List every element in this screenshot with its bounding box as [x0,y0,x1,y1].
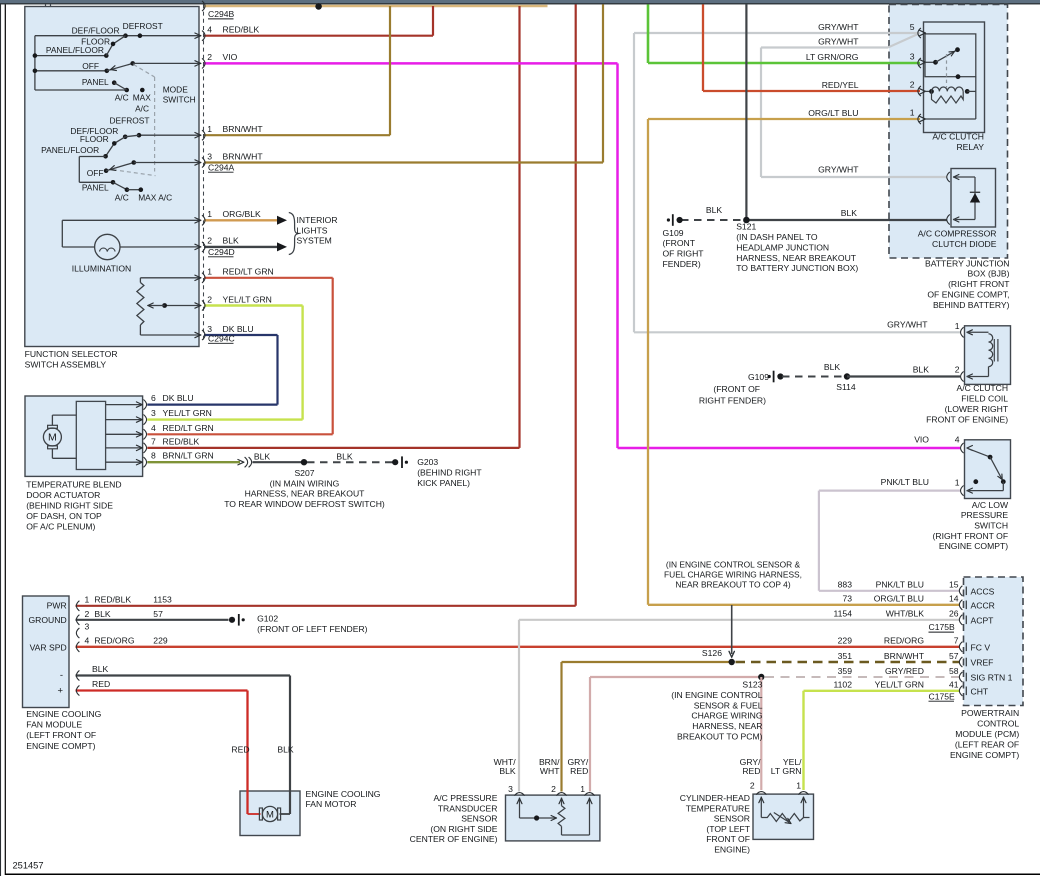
svg-text:ORG/LT BLU: ORG/LT BLU [874,594,924,604]
svg-text:229: 229 [838,636,853,646]
svg-text:58: 58 [949,666,959,676]
svg-text:BLK: BLK [824,362,841,372]
svg-text:RED: RED [742,766,760,776]
svg-text:1: 1 [207,209,212,219]
svg-text:1102: 1102 [834,680,853,690]
svg-text:SIG RTN 1: SIG RTN 1 [971,673,1013,683]
svg-text:GROUND: GROUND [28,615,66,625]
svg-text:A/C: A/C [115,192,129,202]
svg-text:BOX (BJB): BOX (BJB) [967,269,1009,279]
svg-text:SENSOR & FUEL: SENSOR & FUEL [694,700,763,710]
svg-text:DEFROST: DEFROST [123,21,163,31]
svg-text:883: 883 [838,580,853,590]
svg-text:ENGINE COOLING: ENGINE COOLING [26,709,101,719]
svg-text:(LEFT REAR OF: (LEFT REAR OF [955,739,1019,749]
svg-text:BLK: BLK [336,451,353,461]
svg-text:PNK/LT BLU: PNK/LT BLU [881,477,929,487]
svg-text:RED/ORG: RED/ORG [94,636,134,646]
svg-text:ILLUMINATION: ILLUMINATION [72,263,132,273]
svg-text:SWITCH: SWITCH [974,521,1008,531]
svg-text:VREF: VREF [971,658,994,668]
svg-text:MODULE (PCM): MODULE (PCM) [955,729,1019,739]
svg-text:1154: 1154 [834,609,853,619]
svg-text:3: 3 [207,324,212,334]
svg-text:YEL/LT GRN: YEL/LT GRN [163,408,212,418]
svg-text:S126: S126 [702,648,722,658]
svg-text:(ON RIGHT SIDE: (ON RIGHT SIDE [430,824,497,834]
svg-text:RELAY: RELAY [956,142,984,152]
svg-text:DK BLU: DK BLU [223,324,254,334]
svg-text:1: 1 [955,321,960,331]
svg-text:FUNCTION SELECTOR: FUNCTION SELECTOR [25,349,118,359]
svg-text:CONTROL: CONTROL [977,719,1019,729]
svg-text:(IN ENGINE CONTROL SENSOR &: (IN ENGINE CONTROL SENSOR & [666,559,801,569]
svg-text:CHARGE WIRING: CHARGE WIRING [691,711,762,721]
svg-text:(FRONT: (FRONT [663,238,696,248]
svg-text:RED/LT GRN: RED/LT GRN [223,267,274,277]
svg-text:(FRONT OF LEFT FENDER): (FRONT OF LEFT FENDER) [257,624,368,634]
svg-text:TO BATTERY JUNCTION BOX): TO BATTERY JUNCTION BOX) [736,263,858,273]
svg-text:BLK: BLK [254,451,271,461]
svg-text:(LOWER RIGHT: (LOWER RIGHT [945,404,1009,414]
svg-text:SWITCH: SWITCH [163,95,196,105]
svg-text:7: 7 [151,436,156,446]
svg-text:YEL/LT GRN: YEL/LT GRN [875,680,924,690]
svg-text:OF A/C PLENUM): OF A/C PLENUM) [26,522,95,532]
svg-text:HEADLAMP JUNCTION: HEADLAMP JUNCTION [736,242,829,252]
svg-text:TRANSDUCER: TRANSDUCER [438,803,498,813]
svg-text:FRONT OF ENGINE): FRONT OF ENGINE) [926,414,1008,424]
svg-text:NEAR BREAKOUT TO COP 4): NEAR BREAKOUT TO COP 4) [675,580,790,590]
svg-text:FAN MOTOR: FAN MOTOR [306,799,357,809]
svg-text:3: 3 [207,151,212,161]
svg-text:POWERTRAIN: POWERTRAIN [961,708,1019,718]
svg-text:PNK/LT BLU: PNK/LT BLU [876,580,924,590]
svg-text:G109: G109 [748,372,769,382]
svg-text:2: 2 [750,780,755,790]
svg-text:M: M [266,810,274,821]
svg-text:TEMPERATURE BLEND: TEMPERATURE BLEND [26,479,121,489]
svg-text:C294D: C294D [208,247,235,257]
svg-text:1: 1 [796,780,801,790]
svg-text:G102: G102 [257,613,278,623]
svg-text:2: 2 [551,784,556,794]
svg-text:WHT/BLK: WHT/BLK [886,609,924,619]
svg-text:DK BLU: DK BLU [163,393,194,403]
svg-text:BREAKOUT TO PCM): BREAKOUT TO PCM) [677,732,763,742]
svg-text:26: 26 [949,609,959,619]
svg-text:OFF: OFF [82,61,99,71]
svg-text:M: M [48,432,57,444]
svg-text:(BEHIND RIGHT SIDE: (BEHIND RIGHT SIDE [26,501,113,511]
svg-text:FRONT OF: FRONT OF [706,834,750,844]
svg-text:1: 1 [910,107,915,117]
svg-text:41: 41 [949,680,959,690]
svg-text:(TOP LEFT: (TOP LEFT [706,824,750,834]
svg-text:1: 1 [207,267,212,277]
svg-text:S121: S121 [736,222,756,232]
svg-text:FC V: FC V [971,642,991,652]
svg-text:C294B: C294B [208,9,235,19]
svg-text:57: 57 [153,609,163,619]
svg-text:BLK: BLK [92,664,109,674]
svg-text:G203: G203 [417,457,438,467]
svg-text:3: 3 [85,622,90,632]
svg-text:2: 2 [955,365,960,375]
svg-text:3: 3 [910,51,915,61]
svg-text:RED/YEL: RED/YEL [822,80,859,90]
svg-text:C294A: C294A [208,162,235,172]
svg-text:RED/LT GRN: RED/LT GRN [163,423,214,433]
svg-text:(RIGHT FRONT: (RIGHT FRONT [948,279,1010,289]
svg-text:4: 4 [85,636,90,646]
svg-text:BLK: BLK [94,609,111,619]
svg-text:4: 4 [207,25,212,35]
svg-text:FENDER): FENDER) [663,259,701,269]
svg-text:PANEL: PANEL [82,77,109,87]
svg-text:ENGINE COMPT): ENGINE COMPT) [950,750,1019,760]
svg-text:A/C PRESSURE: A/C PRESSURE [434,793,498,803]
svg-text:C175E: C175E [929,691,956,701]
svg-text:14: 14 [949,594,959,604]
svg-text:DEF/FLOOR: DEF/FLOOR [72,26,120,36]
svg-text:CHT: CHT [971,686,989,696]
svg-text:2: 2 [910,79,915,89]
svg-text:GRY/RED: GRY/RED [885,666,924,676]
svg-text:BLK: BLK [706,205,723,215]
svg-text:1: 1 [580,784,585,794]
svg-text:OF ENGINE COMPT,: OF ENGINE COMPT, [927,290,1009,300]
svg-text:GRY/WHT: GRY/WHT [818,165,859,175]
svg-text:BLK: BLK [913,365,930,375]
svg-text:1: 1 [207,124,212,134]
svg-text:73: 73 [842,594,852,604]
svg-text:7: 7 [954,636,959,646]
svg-text:SENSOR: SENSOR [714,814,750,824]
svg-text:ENGINE COOLING: ENGINE COOLING [306,789,381,799]
svg-text:(BEHIND RIGHT: (BEHIND RIGHT [417,467,482,477]
svg-text:INTERIOR: INTERIOR [297,215,338,225]
svg-text:+: + [57,685,63,696]
svg-text:OF RIGHT: OF RIGHT [663,249,705,259]
svg-text:BLK: BLK [223,236,240,246]
svg-text:FIELD COIL: FIELD COIL [961,394,1008,404]
svg-text:KICK PANEL): KICK PANEL) [417,478,470,488]
svg-text:GRY/WHT: GRY/WHT [887,319,928,329]
svg-text:RED/BLK: RED/BLK [94,594,131,604]
svg-text:C294C: C294C [208,333,235,343]
svg-text:MAX: MAX [133,93,152,103]
svg-text:2: 2 [207,294,212,304]
svg-text:ORG/LT BLU: ORG/LT BLU [808,108,858,118]
svg-text:359: 359 [838,666,853,676]
svg-text:HARNESS, NEAR BREAKOUT: HARNESS, NEAR BREAKOUT [245,489,366,499]
svg-text:2: 2 [207,236,212,246]
svg-text:RED: RED [92,679,110,689]
svg-text:A/C: A/C [135,104,149,114]
svg-text:ENGINE): ENGINE) [714,845,750,855]
svg-text:4: 4 [955,435,960,445]
svg-text:BATTERY JUNCTION: BATTERY JUNCTION [925,258,1010,268]
svg-text:2: 2 [85,609,90,619]
svg-text:VIO: VIO [223,52,238,62]
svg-text:LT GRN/ORG: LT GRN/ORG [806,52,859,62]
svg-text:BRN/WHT: BRN/WHT [223,151,264,161]
svg-text:BRN/WHT: BRN/WHT [223,124,264,134]
svg-text:3: 3 [508,784,513,794]
svg-text:A/C: A/C [115,93,129,103]
svg-text:MODE: MODE [163,84,189,94]
svg-text:A/C LOW: A/C LOW [972,500,1009,510]
svg-text:ORG/BLK: ORG/BLK [223,209,261,219]
svg-text:ENGINE COMPT): ENGINE COMPT) [26,741,95,751]
svg-text:OF DASH, ON TOP: OF DASH, ON TOP [26,511,102,521]
svg-text:DEFROST: DEFROST [109,116,149,126]
svg-text:GRY/WHT: GRY/WHT [818,37,859,47]
svg-text:SWITCH ASSEMBLY: SWITCH ASSEMBLY [25,360,107,370]
svg-text:BEHIND BATTERY): BEHIND BATTERY) [933,300,1010,310]
svg-text:RED: RED [231,745,249,755]
svg-text:ENGINE COMPT): ENGINE COMPT) [939,541,1008,551]
svg-text:RED/BLK: RED/BLK [223,25,260,35]
svg-text:PRESSURE: PRESSURE [961,510,1009,520]
svg-text:CENTER OF ENGINE): CENTER OF ENGINE) [410,834,498,844]
svg-text:TO REAR WINDOW DEFROST SWITCH): TO REAR WINDOW DEFROST SWITCH) [224,499,385,509]
svg-text:PANEL/FLOOR: PANEL/FLOOR [46,45,104,55]
svg-text:-: - [60,670,63,681]
svg-text:S123: S123 [742,680,762,690]
svg-text:OFF: OFF [87,168,104,178]
svg-text:RIGHT FENDER): RIGHT FENDER) [699,396,766,406]
svg-text:LT GRN: LT GRN [771,766,802,776]
svg-text:(IN ENGINE CONTROL: (IN ENGINE CONTROL [671,690,762,700]
svg-text:BRN/LT GRN: BRN/LT GRN [163,451,214,461]
svg-text:1153: 1153 [153,594,172,604]
svg-text:RED/ORG: RED/ORG [884,636,924,646]
svg-text:SENSOR: SENSOR [461,814,497,824]
svg-text:(LEFT FRONT OF: (LEFT FRONT OF [26,730,96,740]
svg-text:G109: G109 [663,228,684,238]
svg-text:RED: RED [570,766,588,776]
svg-text:A/C CLUTCH: A/C CLUTCH [957,383,1009,393]
svg-text:229: 229 [153,636,168,646]
svg-text:VAR SPD: VAR SPD [30,642,67,652]
svg-text:PANEL/FLOOR: PANEL/FLOOR [41,145,99,155]
svg-text:ACCR: ACCR [971,600,995,610]
svg-text:FAN MODULE: FAN MODULE [26,720,82,730]
svg-text:TEMPERATURE: TEMPERATURE [686,803,751,813]
svg-text:8: 8 [151,451,156,461]
svg-text:1: 1 [955,478,960,488]
svg-text:6: 6 [151,393,156,403]
svg-text:RED/BLK: RED/BLK [163,436,200,446]
svg-text:S207: S207 [294,468,314,478]
svg-text:C175B: C175B [929,622,956,632]
svg-text:CLUTCH DIODE: CLUTCH DIODE [932,239,997,249]
svg-text:VIO: VIO [914,435,929,445]
svg-text:(FRONT OF: (FRONT OF [713,384,760,394]
svg-text:5: 5 [910,22,915,32]
svg-text:CYLINDER-HEAD: CYLINDER-HEAD [680,793,750,803]
svg-text:251457: 251457 [13,860,44,870]
svg-text:SYSTEM: SYSTEM [297,236,332,246]
svg-text:DOOR ACTUATOR: DOOR ACTUATOR [26,490,100,500]
svg-text:3: 3 [151,408,156,418]
svg-text:LIGHTS: LIGHTS [297,225,328,235]
svg-text:BLK: BLK [841,208,858,218]
svg-text:S114: S114 [836,382,856,392]
svg-text:351: 351 [838,651,853,661]
svg-text:MAX A/C: MAX A/C [138,192,172,202]
svg-text:PANEL: PANEL [82,183,109,193]
svg-text:HARNESS, NEAR BREAKOUT: HARNESS, NEAR BREAKOUT [736,253,857,263]
svg-text:ACPT: ACPT [971,615,995,625]
svg-text:BLK: BLK [499,766,516,776]
svg-text:HARNESS, NEAR: HARNESS, NEAR [692,721,762,731]
svg-text:(IN MAIN WIRING: (IN MAIN WIRING [270,478,340,488]
svg-text:A/C COMPRESSOR: A/C COMPRESSOR [918,229,997,239]
svg-text:4: 4 [151,423,156,433]
svg-text:WHT: WHT [540,766,560,776]
svg-text:YEL/LT GRN: YEL/LT GRN [223,294,272,304]
svg-text:(IN DASH PANEL TO: (IN DASH PANEL TO [736,232,818,242]
svg-text:ACCS: ACCS [971,586,995,596]
svg-text:BLK: BLK [277,745,294,755]
svg-text:57: 57 [949,651,959,661]
svg-text:2: 2 [207,52,212,62]
svg-text:FUEL CHARGE WIRING HARNESS,: FUEL CHARGE WIRING HARNESS, [664,570,802,580]
svg-text:BRN/WHT: BRN/WHT [884,651,925,661]
svg-text:GRY/WHT: GRY/WHT [818,22,859,32]
svg-text:15: 15 [949,580,959,590]
svg-text:PWR: PWR [47,601,67,611]
svg-text:A/C CLUTCH: A/C CLUTCH [932,132,984,142]
svg-text:1: 1 [85,594,90,604]
svg-text:(RIGHT FRONT OF: (RIGHT FRONT OF [933,531,1009,541]
svg-text:FLOOR: FLOOR [80,134,109,144]
